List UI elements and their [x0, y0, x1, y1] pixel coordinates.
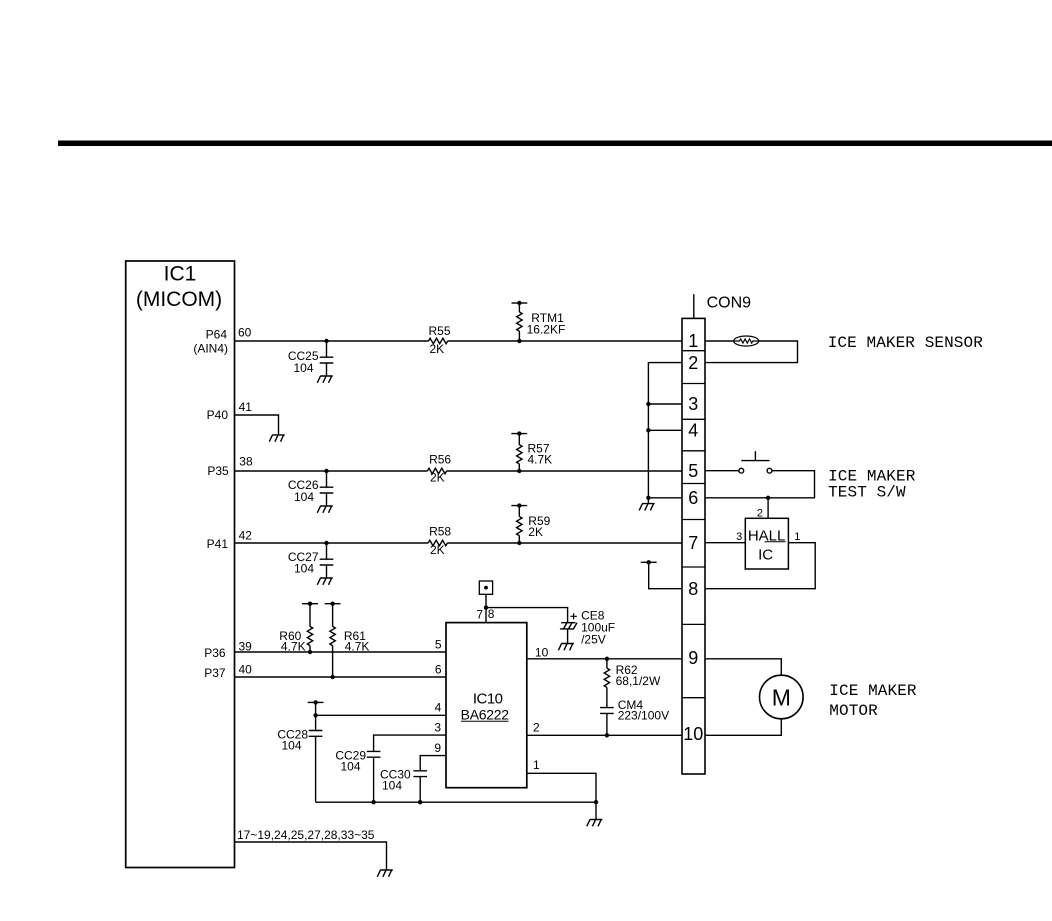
svg-text:9: 9	[434, 741, 441, 755]
svg-text:/25V: /25V	[581, 633, 606, 647]
svg-text:BA6222: BA6222	[461, 706, 510, 722]
wire CON9 pin5 to switch	[705, 470, 739, 472]
wire CON9 pin7 to HALL pin3	[705, 542, 745, 544]
capacitor C1 CC25 104	[320, 341, 334, 376]
svg-text:P37: P37	[204, 666, 226, 680]
connector CON9 body	[682, 318, 705, 774]
svg-text:40: 40	[239, 663, 253, 677]
wire IC10 pin7/8 stem	[485, 594, 487, 622]
node junction HALL pin2 tap	[766, 496, 770, 500]
sensor element thermistor oval	[734, 336, 759, 346]
node junction pin4 rail	[646, 428, 650, 432]
wire IC10 pin9 to CC30	[420, 756, 446, 771]
wire net P41/pin42 to CON9 pin7	[235, 542, 683, 544]
node junction CE8 branch	[484, 605, 488, 609]
svg-text:MOTOR: MOTOR	[829, 702, 878, 720]
resistor R57 4.7K	[511, 431, 527, 471]
svg-text:5: 5	[688, 461, 698, 481]
node junction RTM1 on net P64	[517, 339, 521, 343]
resistor R62 68,1/2W	[604, 659, 609, 708]
svg-text:2: 2	[533, 721, 540, 735]
svg-text:104: 104	[294, 490, 314, 504]
svg-text:10: 10	[535, 646, 549, 660]
svg-text:223/100V: 223/100V	[618, 709, 669, 723]
resistor R55 2K	[429, 338, 448, 343]
capacitor CC29 104	[367, 751, 381, 802]
svg-text:41: 41	[239, 400, 253, 414]
capacitor CE8 100uF/25V polarized	[560, 613, 577, 643]
capacitor CM4 223/100V	[600, 708, 614, 736]
capacitor CC28 104 with net tick	[308, 700, 324, 802]
svg-text:P41: P41	[207, 537, 229, 551]
svg-text:104: 104	[293, 361, 313, 375]
svg-text:4: 4	[688, 421, 698, 441]
wire HALL pin2 stem	[767, 498, 769, 519]
svg-text:2K: 2K	[430, 342, 445, 356]
svg-text:3: 3	[688, 394, 698, 414]
svg-text:P36: P36	[204, 646, 226, 660]
svg-text:CON9: CON9	[707, 295, 752, 312]
wire CE8 branch	[486, 608, 568, 623]
net symbol square above IC10 pin 7/8	[479, 581, 492, 594]
svg-text:104: 104	[382, 779, 402, 793]
node junction CC25 on net P64	[324, 339, 328, 343]
ground below pins 17~35	[377, 870, 393, 877]
svg-text:P64: P64	[206, 328, 228, 342]
title bar	[58, 141, 1052, 147]
node junction pin6 rail	[646, 496, 650, 500]
capacitor CC27 104	[320, 543, 334, 578]
svg-text:8: 8	[488, 607, 495, 621]
svg-text:2: 2	[688, 353, 698, 373]
resistor R58 2K	[428, 540, 447, 545]
svg-text:(MICOM): (MICOM)	[136, 288, 222, 311]
svg-text:4.7K: 4.7K	[528, 453, 553, 467]
wire IC10 pin10 to CON9 pin9	[527, 658, 682, 660]
resistor RTM1 16.2KF	[512, 301, 528, 341]
svg-text:2: 2	[757, 508, 763, 520]
svg-text:17~19,24,25,27,28,33~35: 17~19,24,25,27,28,33~35	[237, 828, 375, 842]
switch S/W test	[739, 451, 772, 473]
underline HALL	[765, 541, 786, 543]
svg-text:7: 7	[476, 608, 483, 622]
wire CON9 pin10 to motor	[705, 719, 781, 736]
svg-text:2K: 2K	[430, 471, 445, 485]
node junction CC29 bottom	[371, 800, 375, 804]
svg-text:104: 104	[294, 562, 314, 576]
wire CON9 pin6 to rail	[648, 497, 682, 499]
wire net P37/pin40 to IC10 pin6	[235, 676, 447, 678]
svg-text:R58: R58	[429, 525, 451, 539]
svg-text:2K: 2K	[430, 543, 445, 557]
node junction R61 on net P37	[330, 675, 334, 679]
svg-text:P35: P35	[207, 464, 229, 478]
svg-text:IC: IC	[758, 546, 773, 563]
ground below CC27	[317, 578, 333, 585]
IC U1 IC1 (MICOM) body	[126, 261, 235, 868]
ground below P40	[269, 435, 285, 442]
svg-text:1: 1	[533, 758, 540, 772]
ground below CE8	[558, 644, 574, 651]
svg-text:60: 60	[238, 326, 252, 340]
node junction CC30 bottom	[418, 800, 422, 804]
svg-text:IC1: IC1	[164, 263, 197, 286]
svg-text:1: 1	[794, 531, 800, 543]
wire net P40/pin41 stub	[235, 415, 279, 435]
svg-text:6: 6	[435, 663, 442, 677]
wire bottom common rail	[316, 801, 596, 803]
svg-text:16.2KF: 16.2KF	[527, 323, 566, 337]
node junction pin3 rail	[646, 402, 650, 406]
wire CON9 pin1 sensor loop	[705, 341, 798, 363]
wire net P36/pin39 to IC10 pin5	[235, 651, 447, 653]
svg-text:10: 10	[683, 724, 703, 744]
node junction CC26 on net P35	[324, 469, 328, 473]
wire CON9 pin8 net stub with tick	[641, 560, 682, 589]
svg-text:104: 104	[281, 739, 301, 753]
svg-text:M: M	[772, 684, 791, 710]
node junction rail to ground	[594, 800, 598, 804]
resistor R59 2K	[511, 503, 527, 543]
wire IC10 pin2 to CON9 pin10	[527, 734, 682, 736]
svg-text:4.7K: 4.7K	[345, 640, 370, 654]
wire CON9 pin9 to motor	[705, 659, 781, 675]
svg-text:ICE MAKER SENSOR: ICE MAKER SENSOR	[828, 334, 984, 352]
resistor R60 4.7K	[302, 602, 318, 653]
svg-text:R55: R55	[429, 324, 451, 338]
ground below CC26	[317, 506, 333, 513]
svg-text:68,1/2W: 68,1/2W	[616, 674, 661, 688]
capacitor CC26 104	[320, 471, 334, 506]
svg-text:4.7K: 4.7K	[281, 640, 306, 654]
node junction CC28 top	[313, 713, 317, 717]
ground below CC25	[317, 376, 333, 383]
wire CON9 pin3 to rail	[648, 403, 682, 405]
node junction CC27 on net P41	[324, 541, 328, 545]
node junction R60 on net P36	[308, 650, 312, 654]
node junction R62 top	[605, 657, 609, 661]
IC U10 IC10 BA6222 body	[446, 623, 527, 788]
svg-text:R56: R56	[429, 453, 451, 467]
wire IC10 pin1 down to rail and ground	[527, 773, 596, 819]
svg-text:IC10: IC10	[473, 690, 503, 707]
svg-text:9: 9	[688, 648, 698, 668]
wire net pins 17~35 ground stub	[235, 842, 387, 870]
node junction CM4 bottom	[605, 733, 609, 737]
svg-text:38: 38	[239, 455, 253, 469]
underline BA6222	[461, 720, 509, 722]
svg-text:TEST S/W: TEST S/W	[828, 484, 906, 502]
svg-text:2K: 2K	[528, 525, 543, 539]
ground below rail	[587, 820, 603, 827]
svg-text:3: 3	[736, 531, 742, 543]
wire switch to CON9 pin6 loop	[705, 471, 815, 498]
wire CON9 pin2 to ground rail	[648, 363, 682, 504]
svg-text:39: 39	[239, 640, 253, 654]
svg-text:5: 5	[435, 638, 442, 652]
resistor R56 2K	[427, 468, 446, 473]
wire net P35/pin38 to CON9 pin5	[235, 470, 683, 472]
svg-text:ICE MAKER: ICE MAKER	[829, 682, 917, 700]
node junction R59 on net P41	[517, 541, 521, 545]
wire net P64/pin60 to CON9 pin1	[235, 340, 683, 342]
svg-text:1: 1	[688, 331, 698, 351]
IC HALL IC body	[745, 518, 788, 569]
svg-text:42: 42	[239, 529, 253, 543]
svg-text:P40: P40	[207, 408, 229, 422]
svg-text:8: 8	[688, 579, 698, 599]
svg-text:(AIN4): (AIN4)	[193, 342, 228, 356]
wire CON9 pin4 to rail	[648, 429, 682, 431]
node junction R57 on net P35	[517, 469, 521, 473]
motor M circle	[760, 675, 804, 719]
wire IC10 pin3 to CC29	[374, 735, 446, 751]
svg-text:6: 6	[688, 488, 698, 508]
connector CON9 stub	[693, 294, 695, 318]
svg-text:104: 104	[340, 760, 360, 774]
svg-text:7: 7	[688, 533, 698, 553]
wire IC10 pin4 to CC28	[316, 714, 446, 716]
ground below CON9 pins 2/3/4/6 rail	[639, 504, 655, 511]
wire HALL pin1 to CON9 pin8	[705, 543, 815, 589]
svg-text:4: 4	[435, 701, 442, 715]
resistor R61 4.7K	[325, 602, 341, 678]
svg-text:3: 3	[434, 721, 441, 735]
capacitor CC30 104	[413, 771, 427, 802]
